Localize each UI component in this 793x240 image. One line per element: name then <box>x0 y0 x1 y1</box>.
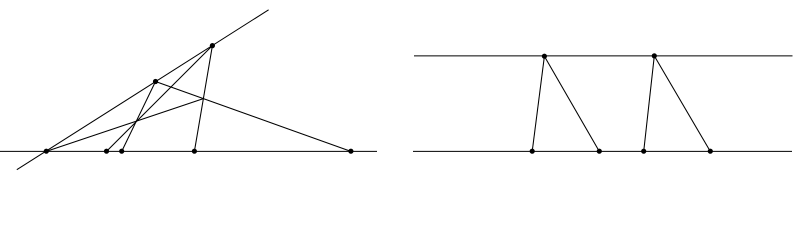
node B4 <box>708 149 713 154</box>
wire: line A to P5 <box>156 82 351 152</box>
wire: line T2 to B4 <box>654 56 710 151</box>
wire: top parallel line (right figure) <box>414 55 793 57</box>
node A <box>153 79 158 84</box>
wire: line B to P2 <box>107 46 213 152</box>
node B1 <box>530 149 535 154</box>
node P5 <box>348 149 353 154</box>
node B3 <box>641 149 646 154</box>
node T1 <box>542 54 547 59</box>
wire: line T1 to B1 <box>532 56 544 151</box>
node B <box>210 43 215 48</box>
wire: bottom line l (left figure) <box>0 150 377 152</box>
wire: line A to P3 <box>122 82 156 152</box>
node T2 <box>652 53 657 58</box>
node B2 <box>597 149 602 154</box>
node P4 <box>192 149 197 154</box>
wire: line B to P4 <box>194 46 212 152</box>
wire: long auxiliary line m through P1, A, B <box>17 10 269 170</box>
wire: line s from P1 to X2 <box>46 99 203 152</box>
wire: bottom parallel line (right figure) <box>413 150 792 152</box>
node P2 <box>104 149 109 154</box>
wire: line T1 to B2 <box>544 56 599 151</box>
wire: line T2 to B3 <box>644 56 655 151</box>
node P3 <box>119 149 124 154</box>
node P1 <box>44 149 49 154</box>
